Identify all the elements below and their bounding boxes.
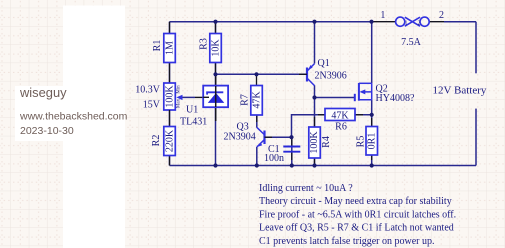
wire Q1 collector to R4	[314, 85, 316, 127]
svg-text:R7: R7	[239, 94, 250, 106]
svg-text:47K: 47K	[331, 110, 349, 121]
svg-text:Fire proof - at ~6.5A with 0R1: Fire proof - at ~6.5A with 0R1 circuit l…	[259, 209, 456, 220]
svg-text:12V Battery: 12V Battery	[433, 85, 487, 97]
svg-text:Max: Max	[177, 98, 182, 108]
wire Q2 source down	[371, 100, 373, 127]
wire base row y74	[216, 73, 308, 75]
wire gate row	[315, 97, 355, 99]
wire right rail upper	[475, 22, 477, 74]
capacitor C1	[264, 137, 300, 164]
wire Q2 drain up	[371, 22, 373, 84]
node gnd R5	[370, 163, 374, 167]
svg-text:R6: R6	[335, 122, 347, 133]
resistor R2	[151, 110, 176, 166]
fuse F1 7.5A	[372, 10, 445, 48]
svg-text:2N3904: 2N3904	[224, 132, 256, 143]
wire bottom rail	[170, 165, 477, 167]
resistor R1	[152, 22, 176, 83]
node top Q2	[369, 20, 373, 24]
svg-text:2N3906: 2N3906	[315, 71, 347, 82]
wire Q3 collector	[256, 115, 258, 128]
node top Q1	[312, 20, 316, 24]
resistor R6	[318, 109, 363, 133]
node C1 base	[289, 135, 293, 139]
svg-text:Idling current ~ 10uA ?: Idling current ~ 10uA ?	[259, 183, 353, 194]
node gate	[312, 95, 316, 99]
svg-text:Leave off Q3, R5 - R7 & C1 if: Leave off Q3, R5 - R7 & C1 if Latch not …	[259, 223, 454, 234]
wire C1 column	[291, 137, 293, 165]
svg-text:Min: Min	[177, 85, 182, 94]
svg-text:TL431: TL431	[180, 117, 207, 128]
svg-text:www.thebackshed.com: www.thebackshed.com	[19, 111, 128, 123]
wire Q1 emitter up	[314, 22, 316, 64]
svg-text:C1 prevents latch false trigge: C1 prevents latch false trigger on power…	[259, 236, 435, 247]
wire fuse to right corner	[444, 21, 476, 23]
node gnd U1	[213, 163, 217, 167]
svg-text:220K: 220K	[164, 129, 175, 152]
node base row R7	[254, 72, 258, 76]
svg-text:2023-10-30: 2023-10-30	[20, 125, 74, 137]
resistor R3	[198, 22, 221, 75]
wire left rail	[169, 22, 171, 166]
svg-text:2: 2	[439, 10, 444, 21]
svg-text:1: 1	[380, 10, 385, 21]
svg-text:100K: 100K	[309, 131, 320, 154]
svg-text:2: 2	[418, 21, 421, 27]
svg-text:10.3V: 10.3V	[135, 85, 161, 96]
svg-text:0R1: 0R1	[366, 133, 377, 150]
svg-text:1M: 1M	[164, 41, 175, 55]
svg-text:100K: 100K	[164, 85, 175, 108]
wire R3 U1 column	[215, 22, 217, 166]
svg-text:100n: 100n	[264, 153, 284, 164]
svg-text:R2: R2	[151, 135, 162, 147]
svg-text:47K: 47K	[251, 91, 262, 109]
wire Q3 emitter down	[256, 147, 258, 166]
transistor Q2 HY4008 mosfet	[355, 83, 415, 104]
wire R6 left to C1 node	[292, 115, 326, 137]
svg-text:R3: R3	[198, 38, 209, 50]
node base row R3	[213, 72, 217, 76]
potentiometer 100K	[164, 83, 203, 110]
node source R5	[370, 113, 374, 117]
node gnd R4	[312, 163, 316, 167]
transistor Q1 2N3906	[299, 58, 347, 86]
wire R6 right to R5	[355, 114, 372, 116]
node top R3	[213, 20, 217, 24]
wire Q3 base to C1 node	[265, 136, 292, 138]
resistor R5	[355, 118, 377, 160]
white panel text area	[15, 86, 65, 141]
op-amp U1 TL431	[180, 74, 228, 127]
wire R5 bottom	[371, 155, 373, 166]
wire right rail lower	[475, 109, 477, 166]
svg-text:R5: R5	[355, 136, 366, 148]
svg-text:7.5A: 7.5A	[401, 37, 422, 48]
white panel tall	[63, 6, 125, 248]
node gnd Q3	[255, 163, 259, 167]
svg-text:Theory circuit - May need extr: Theory circuit - May need extra cap for …	[259, 196, 452, 207]
svg-text:HY4008?: HY4008?	[376, 93, 415, 104]
resistor R7	[239, 74, 262, 122]
svg-text:wiseguy: wiseguy	[19, 85, 67, 100]
transistor Q3 2N3904	[224, 122, 273, 148]
svg-text:Q1: Q1	[318, 58, 330, 69]
svg-text:15V: 15V	[143, 100, 161, 111]
svg-text:1: 1	[405, 21, 408, 27]
node gnd C1	[290, 163, 294, 167]
svg-text:U1: U1	[186, 105, 198, 116]
wire R4 bottom	[314, 158, 316, 166]
svg-text:10K: 10K	[210, 39, 221, 57]
svg-text:R4: R4	[321, 136, 332, 148]
resistor R4	[309, 117, 332, 166]
notes text block	[259, 183, 456, 247]
wire top rail	[170, 21, 372, 23]
svg-text:R1: R1	[152, 40, 163, 52]
